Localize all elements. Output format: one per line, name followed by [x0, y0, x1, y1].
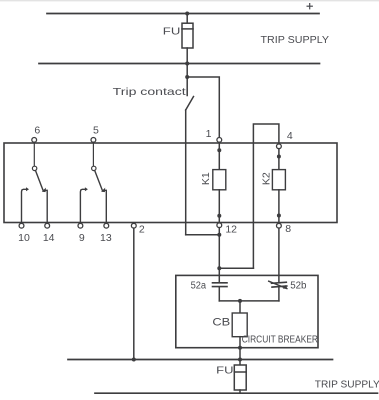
svg-text:TRIP SUPPLY: TRIP SUPPLY [315, 380, 379, 391]
wire 52a to bottom node [218, 287, 220, 301]
contact 52b top plate [272, 282, 287, 283]
junction CB-bus [238, 358, 242, 362]
terminal 2 circle [131, 223, 136, 228]
junction below terminal 4 [277, 155, 281, 159]
bottom trip supply bus [95, 392, 378, 394]
polarity plus label [309, 3, 311, 9]
second supply bus [39, 63, 320, 65]
contact A NO arrow [26, 187, 29, 191]
terminal 1 circle [217, 138, 222, 143]
svg-text:K2: K2 [260, 172, 272, 185]
junction trip contact branch [185, 75, 189, 79]
fuse FU2 element line [234, 371, 246, 373]
wire terminal 12 down to 52a [218, 228, 220, 282]
wire terminal 2 to negative bus [133, 228, 135, 359]
junction seal-in node [217, 266, 221, 270]
wire coil K2 to terminal 8 [278, 190, 280, 224]
contact B blade [95, 171, 103, 191]
wire FU1 to bus2 [186, 48, 188, 64]
contact A NC lead to terminal 14 [44, 190, 47, 222]
terminal 14 circle [45, 223, 50, 228]
relay case outline [4, 143, 337, 223]
wire coil K1 to terminal 12 [218, 190, 220, 223]
svg-text:10: 10 [18, 232, 30, 244]
wire bus2 to trip contact [186, 64, 188, 96]
junction FU1-bus2 [185, 62, 189, 66]
svg-text:TRIP SUPPLY: TRIP SUPPLY [261, 35, 330, 46]
wire bus1 to fuse FU1 [186, 14, 188, 24]
junction terminal2-bus [132, 358, 136, 362]
wire terminal 5 to contact B pivot [92, 142, 94, 166]
wire bus to fuse FU2 [239, 360, 241, 366]
contact 52b slash [269, 281, 287, 288]
contact A pivot circle [32, 166, 36, 170]
page top border [0, 0, 379, 1]
junction above terminal 12 [217, 214, 221, 218]
contact 52a top plate [213, 282, 228, 284]
junction trip wire below 12 [217, 233, 221, 237]
wire terminal 8 down to 52b [278, 228, 280, 282]
contact 52b bottom plate [272, 286, 287, 287]
junction CB box edge [238, 346, 242, 350]
negative return bus [68, 359, 333, 361]
wire 52b to bottom node [278, 287, 280, 301]
svg-text:4: 4 [287, 130, 293, 142]
terminal 9 circle [78, 223, 83, 228]
terminal 12 circle [217, 223, 222, 228]
wire common node to CB coil [239, 301, 241, 313]
wire branch node to coil K1 terminal 1 [187, 77, 219, 138]
terminal 8 circle [277, 223, 282, 228]
jumper loop terminal 4 [253, 124, 279, 268]
contact B NO arrow [85, 187, 88, 191]
svg-text:5: 5 [93, 124, 99, 136]
svg-text:14: 14 [43, 232, 55, 244]
svg-text:6: 6 [34, 124, 40, 136]
coil K1 body [213, 170, 226, 190]
positive supply bus [47, 13, 319, 15]
contact 52a bottom plate [213, 286, 228, 288]
wire 52a-52b common [219, 300, 279, 302]
wire CB coil to negative bus [239, 337, 241, 360]
terminal 5 circle [91, 138, 96, 143]
coil K2 body [272, 170, 285, 190]
junction below terminal 1 [217, 148, 221, 152]
contact A blade [36, 171, 44, 191]
svg-text:52b: 52b [290, 281, 307, 292]
junction 52 common node [238, 299, 242, 303]
contact A blade barb [42, 188, 46, 193]
CB trip coil body [232, 313, 247, 337]
svg-text:FU: FU [216, 364, 233, 376]
svg-text:K1: K1 [200, 172, 212, 185]
junction above terminal 8 [277, 214, 281, 218]
svg-text:12: 12 [225, 223, 237, 235]
wire terminal 4 to coil K2 [278, 149, 280, 170]
contact A NO lead from terminal 10 [22, 189, 27, 222]
contact B NO lead from terminal 9 [80, 189, 85, 222]
contact B blade barb [101, 188, 105, 193]
svg-text:CIRCUIT BREAKER: CIRCUIT BREAKER [242, 334, 318, 345]
contact B pivot circle [92, 166, 96, 170]
wire terminal 6 to contact A pivot [33, 142, 35, 166]
svg-text:CB: CB [212, 316, 230, 328]
svg-text:1: 1 [206, 128, 212, 140]
terminal 4 circle [277, 144, 282, 149]
wire terminal 1 to coil K1 [218, 142, 220, 169]
terminal 10 circle [19, 223, 24, 228]
wire seal-in node to jumper loop [219, 267, 253, 269]
fuse FU2 body [234, 365, 246, 390]
svg-text:13: 13 [100, 232, 112, 244]
svg-text:Trip contact: Trip contact [113, 86, 186, 98]
svg-text:9: 9 [79, 232, 85, 244]
wire FU2 to bottom bus [239, 390, 241, 393]
terminal 6 circle [32, 138, 37, 143]
wire trip contact to node below 12 [186, 234, 220, 236]
svg-text:2: 2 [139, 223, 145, 235]
svg-text:52a: 52a [191, 281, 207, 292]
contact B NC lead to terminal 13 [104, 190, 107, 222]
svg-text:8: 8 [285, 223, 291, 235]
junction bus1-FU1 [185, 12, 189, 16]
svg-text:FU: FU [163, 26, 181, 38]
fuse FU1 body [182, 23, 193, 48]
fuse FU1 element line [182, 28, 193, 30]
trip contact blade [186, 97, 194, 111]
wire trip contact lower lead [185, 110, 187, 235]
contact 52b barb [283, 285, 288, 289]
circuit breaker box outline [176, 275, 318, 347]
terminal 13 circle [104, 223, 109, 228]
